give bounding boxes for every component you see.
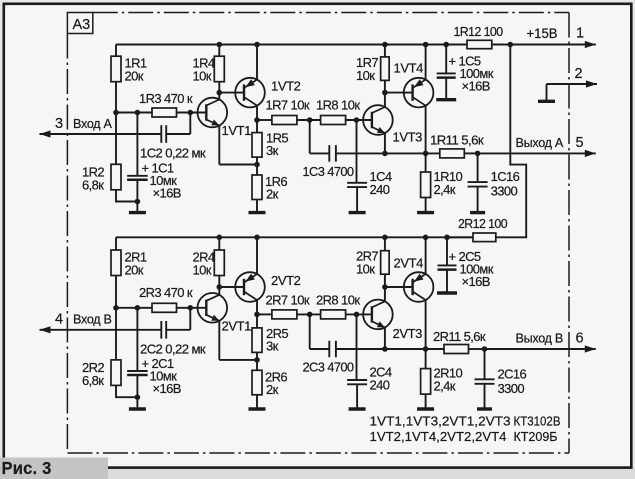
wire 2VT4 collector down: [425, 300, 427, 349]
svg-text:2C3 4700: 2C3 4700: [303, 359, 354, 374]
junction 1VT3 collector/1R7 vert/1VT4 base: [382, 90, 388, 96]
svg-text:×16В: ×16В: [153, 186, 181, 201]
junction rail/2VT4 emitter: [423, 235, 429, 241]
junction output/2C16: [482, 346, 488, 352]
wire output node to 1R10: [425, 153, 427, 172]
wire 2VT3 emitter down: [384, 327, 386, 349]
resistor 1R11: [440, 149, 465, 158]
junction 2R5/2R6/2VT1 emitter: [254, 357, 260, 363]
wire rail to 1R1: [115, 45, 117, 57]
capacitor 2C16: [475, 379, 495, 384]
svg-text:Рис. 3: Рис. 3: [2, 458, 52, 478]
resistor 2R3: [152, 303, 177, 312]
svg-text:3300: 3300: [491, 184, 518, 199]
transistor 1VT2 (PNP): [235, 78, 265, 108]
wire 2C3 branch down: [309, 314, 311, 349]
svg-text:2R7 10к: 2R7 10к: [266, 293, 310, 308]
resistor 2R10: [421, 369, 431, 395]
junction 2R7/2R8/2C3: [307, 312, 313, 318]
wire 1C16 to ground: [477, 187, 479, 213]
wire 1VT2 collector down: [256, 106, 258, 120]
resistor 2R8: [321, 310, 346, 319]
junction 1R8/1VT3 base/1C4: [354, 117, 360, 123]
module designator box A3: [67, 13, 92, 34]
junction rail/2R7 vertical: [382, 235, 388, 241]
wire 1C1 to ground node: [136, 180, 138, 202]
junction 2R8/2VT3 base/2C4: [354, 312, 360, 318]
svg-text:10к: 10к: [193, 69, 212, 84]
wire 2R7 to 2R8: [297, 313, 321, 315]
svg-text:1VT4: 1VT4: [394, 61, 424, 76]
junction 1VT3 emitter/output line: [382, 151, 388, 157]
wire 2VT1 emitter to 2R5/2R6 node: [219, 359, 257, 361]
svg-text:1: 1: [576, 26, 584, 42]
junction rail/1VT4 emitter: [423, 42, 429, 48]
ground 2C4: [349, 407, 366, 410]
arrow input pin 3: [40, 130, 51, 137]
module border bottom (dash-dot): [67, 452, 569, 454]
svg-text:1VT2,1VT4,2VT2,2VT4: 1VT2,1VT4,2VT2,2VT4: [370, 429, 507, 444]
svg-text:КТ3102В: КТ3102В: [514, 414, 561, 429]
transistor 2VT4 (PNP): [404, 272, 434, 302]
wire 1C5 to ground: [445, 78, 447, 100]
svg-text:2C16: 2C16: [498, 367, 527, 382]
wire to 1C3: [310, 152, 330, 154]
svg-text:4: 4: [55, 311, 63, 327]
resistor 2R4: [214, 250, 224, 276]
wire 1R5 to 1R6: [256, 157, 258, 175]
junction +15V pin node / 2R12 feed: [508, 42, 514, 48]
transistor 1VT3 (NPN): [363, 105, 393, 135]
wire rail to 1C5: [445, 45, 447, 74]
junction 1R5/1R6/1VT1 emitter: [254, 162, 260, 168]
transistor 2VT1 (NPN): [198, 293, 228, 323]
wire output line to pin: [485, 348, 596, 350]
junction rail/1C5: [443, 42, 449, 48]
arrow pin 1 (+15V input): [585, 41, 596, 48]
arrow output pin 6: [585, 345, 596, 352]
junction bias node 1C1: [135, 110, 141, 116]
wire 2R12 feed from +15V node: [496, 45, 526, 238]
ground 2C1/2R2: [129, 407, 146, 410]
resistor 1R5: [252, 133, 262, 158]
resistor 1R3: [152, 108, 177, 117]
module border top (dash-dot): [93, 12, 569, 14]
wire 1R2 to ground node: [116, 190, 137, 202]
wire 1R6 to ground: [256, 200, 258, 213]
junction 2VT1 base node: [188, 305, 194, 311]
wire up to 1VT1 base node: [189, 113, 191, 135]
svg-text:Выход В: Выход В: [516, 331, 563, 345]
wire 1VT1 emitter to 1R5/1R6 node: [219, 164, 257, 166]
wire 2R12 to channel B rail: [447, 236, 473, 238]
wire to 2R5: [256, 314, 258, 328]
svg-text:20к: 20к: [125, 263, 144, 278]
transistor 2VT2 (PNP): [235, 272, 265, 302]
wire 1VT2 emitter to rail: [256, 45, 258, 80]
junction 2R2/2C1 ground node: [135, 394, 141, 400]
capacitor 1C2: [161, 125, 166, 143]
wire 2C1 to ground node: [136, 375, 138, 397]
wire output line to pin: [478, 152, 596, 154]
junction 1VT2 collector/1R5/1R7: [254, 117, 260, 123]
wire 1R10 to ground: [425, 198, 427, 213]
wire rail to 2C5: [446, 237, 448, 265]
wire input line: [40, 329, 162, 331]
svg-text:А3: А3: [73, 17, 91, 33]
wire bias node to 2C1: [136, 308, 138, 371]
resistor 2R7 (vertical): [381, 251, 390, 275]
wire 1VT3 collector up: [384, 93, 386, 107]
resistor 2R7 (horizontal): [272, 310, 297, 319]
wire output node to 1C16: [477, 153, 479, 182]
svg-text:2к: 2к: [266, 187, 279, 202]
capacitor 1C3: [329, 145, 336, 162]
svg-text:3: 3: [55, 116, 63, 132]
capacitor 2C1 (electrolytic): [127, 371, 147, 375]
svg-text:2VT2: 2VT2: [271, 273, 301, 288]
svg-text:3300: 3300: [498, 381, 525, 396]
svg-text:2R12 100: 2R12 100: [458, 216, 507, 231]
ground 1R6: [249, 211, 266, 214]
resistor 2R11: [444, 345, 469, 354]
wire to ground: [136, 202, 138, 213]
wire rail to 1R4: [218, 45, 220, 57]
junction rail/1R4: [217, 42, 223, 48]
svg-text:10к: 10к: [356, 262, 375, 277]
wire 2VT1 emitter down: [218, 321, 220, 360]
wire 1C2 to base node: [166, 133, 190, 135]
wire to ground: [136, 397, 138, 409]
wire 2VT2 collector down: [256, 300, 258, 314]
svg-text:1R12 100: 1R12 100: [454, 24, 503, 39]
wire 2R8 to 2VT3 base: [346, 313, 372, 315]
junction 2VT3 emitter/output line: [382, 346, 388, 352]
svg-text:240: 240: [370, 377, 390, 392]
svg-text:2VT3: 2VT3: [393, 326, 423, 341]
svg-text:1VT1: 1VT1: [222, 123, 252, 138]
arrow output pin 5: [585, 150, 596, 157]
junction bias node 2R1/2R2: [113, 305, 119, 311]
wire 2C16 to ground: [484, 384, 486, 409]
junction bias node 2C1: [135, 305, 141, 311]
resistor 1R6: [252, 175, 262, 200]
wire 2R1 to bias node: [115, 276, 117, 308]
svg-text:2к: 2к: [266, 382, 279, 397]
ground 1C1/1R2: [129, 211, 146, 214]
wire rail to 2R4: [218, 237, 220, 250]
capacitor 1C1 (electrolytic): [127, 176, 147, 180]
svg-text:×16В: ×16В: [462, 79, 490, 94]
junction 1VT4 collector/output line: [423, 151, 429, 157]
wire 2C2 to base node: [166, 329, 190, 331]
junction rail/1R7 vertical: [382, 42, 388, 48]
svg-text:6: 6: [576, 330, 584, 346]
svg-text:1R8 10к: 1R8 10к: [316, 98, 360, 113]
svg-text:2,4к: 2,4к: [434, 182, 456, 197]
wire to 1VT2 base: [219, 92, 244, 94]
svg-text:2VT1: 2VT1: [222, 318, 252, 333]
svg-text:10к: 10к: [193, 263, 212, 278]
junction 1VT1 base node: [188, 110, 194, 116]
svg-text:×16В: ×16В: [153, 381, 181, 396]
resistor 1R10: [421, 172, 431, 198]
svg-text:240: 240: [370, 182, 390, 197]
wire 2VT4 emitter to rail: [425, 237, 427, 274]
module border left (dash-dot): [66, 34, 68, 454]
junction rail/2R4: [217, 235, 223, 241]
svg-text:2R3 470 к: 2R3 470 к: [139, 285, 193, 300]
svg-text:2R8 10к: 2R8 10к: [316, 293, 360, 308]
svg-text:1R7 10к: 1R7 10к: [266, 98, 310, 113]
bottom margin strip: [0, 468, 635, 479]
capacitor 2C5 (electrolytic): [438, 265, 457, 269]
junction 1R4/1VT1 collector/1VT2 base: [217, 90, 223, 96]
transistor 2VT3 (NPN): [363, 300, 393, 330]
wire 1C3 branch down: [309, 120, 311, 153]
resistor 1R4: [214, 56, 224, 81]
svg-text:КТ209Б: КТ209Б: [514, 429, 558, 444]
svg-text:1C16: 1C16: [491, 169, 520, 184]
resistor 2R12: [473, 233, 496, 242]
wire output node to 2C16: [484, 349, 486, 379]
resistor 2R1: [111, 250, 121, 276]
svg-text:+15В: +15В: [527, 25, 558, 41]
resistor 1R7 (vertical): [381, 57, 390, 81]
wire 1VT1 emitter down: [218, 126, 220, 165]
wire to 2VT4 base: [385, 286, 413, 288]
junction 2VT4 collector/output line: [423, 346, 429, 352]
capacitor 2C3: [329, 341, 336, 358]
wire bias node to 2R2: [115, 308, 117, 360]
ground 1R10: [417, 211, 434, 214]
ground 1C16: [470, 211, 485, 214]
wire 2VT3 collector up: [384, 287, 386, 301]
svg-text:20к: 20к: [125, 69, 144, 84]
ground 2C5: [437, 291, 457, 294]
svg-text:1VT1,1VT3,2VT1,2VT3: 1VT1,1VT3,2VT1,2VT3: [370, 414, 511, 429]
wire 1C4 column: [356, 120, 358, 183]
wire 1VT1 collector up: [218, 93, 220, 100]
ground 1C4: [349, 211, 366, 214]
resistor 1R1: [111, 56, 121, 81]
arrow input pin 4: [40, 326, 51, 333]
svg-text:1R11 5,6к: 1R11 5,6к: [430, 132, 484, 147]
figure caption background: [0, 458, 108, 479]
wire 2R2 to ground node: [116, 385, 137, 397]
arrow pin 2: [586, 80, 597, 87]
wire 2C3 to 2VT3 emitter node: [336, 348, 385, 350]
junction rail/2C5: [444, 235, 450, 241]
svg-text:1C3 4700: 1C3 4700: [303, 164, 354, 179]
svg-text:2,4к: 2,4к: [434, 379, 456, 394]
wire 1R12 to pin 1 node: [492, 44, 511, 46]
wire to 2VT2 base: [219, 286, 244, 288]
resistor 2R6: [252, 370, 262, 395]
junction 2VT2 collector/2R5/2R7: [254, 312, 260, 318]
svg-text:1VT3: 1VT3: [393, 130, 423, 145]
wire 1VT3 emitter down: [384, 133, 386, 153]
svg-text:3к: 3к: [266, 143, 279, 158]
wire output line left part: [385, 348, 444, 350]
resistor 1R8: [321, 116, 346, 125]
wire input line: [40, 133, 162, 135]
wire to 2R7: [257, 313, 272, 315]
wire 2R5 to 2R6: [256, 352, 258, 370]
svg-text:6,8к: 6,8к: [82, 178, 104, 193]
svg-text:1VT2: 1VT2: [271, 79, 301, 94]
ground pin 2: [538, 100, 555, 103]
wire 1R7 vertical to 1VT4 base node: [384, 80, 386, 92]
resistor 1R2: [111, 164, 121, 190]
wire to 1VT4 base: [385, 92, 413, 94]
wire 1R4 to 1VT1 collector node: [218, 82, 220, 93]
wire +15V rail channel 2: [116, 236, 473, 238]
wire 2R11 to output node: [469, 348, 485, 350]
wire rail to 2R7 vertical: [384, 237, 386, 250]
wire 2R6 to ground: [256, 395, 258, 409]
transistor 1VT1 (NPN): [198, 98, 228, 128]
wire 2R7 vertical to 2VT4 base node: [384, 274, 386, 287]
wire to pin 1: [510, 44, 596, 46]
wire 2VT1 collector up: [218, 287, 220, 295]
junction 1R2/1C1 ground node: [135, 199, 141, 205]
capacitor 2C4: [347, 380, 367, 384]
junction bias node 1R1/1R2: [113, 110, 119, 116]
svg-text:Выход А: Выход А: [516, 136, 564, 150]
wire 2VT2 emitter to rail: [256, 237, 258, 274]
resistor 2R2: [111, 360, 121, 386]
svg-text:Вход В: Вход В: [73, 312, 112, 326]
wire 1R7 to 1R8: [297, 119, 321, 121]
wire 1R11 to output node: [464, 152, 477, 154]
ground 2C16: [477, 407, 492, 410]
wire to 1R5: [256, 120, 258, 133]
wire 2C5 to ground: [446, 270, 448, 293]
wire 1R8 to 1VT3 base: [346, 119, 372, 121]
ground 1C5: [436, 98, 456, 101]
wire 1C3 to 1VT3 emitter node: [336, 152, 385, 154]
wire bias line to 1VT1 base: [116, 112, 206, 114]
svg-text:5: 5: [576, 135, 584, 151]
capacitor 2C2: [161, 321, 166, 339]
svg-text:2R11 5,6к: 2R11 5,6к: [433, 329, 486, 344]
wire 1C4 to ground: [356, 187, 358, 213]
resistor 2R5: [252, 328, 262, 353]
wire +15V rail channel 1: [116, 44, 467, 46]
capacitor 1C5 (electrolytic): [437, 73, 456, 77]
svg-text:Вход А: Вход А: [73, 117, 112, 131]
transistor 1VT4 (PNP): [404, 78, 434, 108]
wire rail to 1R7 vertical: [384, 45, 386, 57]
wire to 2C3: [310, 348, 330, 350]
wire 2C4 column: [356, 314, 358, 380]
junction rail/2VT2 emitter: [254, 235, 260, 241]
svg-text:6,8к: 6,8к: [82, 373, 104, 388]
wire bias line to 2VT1 base: [116, 307, 206, 309]
wire rail to 2R1: [115, 237, 117, 250]
svg-text:1C2 0,22 мк: 1C2 0,22 мк: [140, 146, 206, 161]
wire output line left part: [385, 152, 440, 154]
svg-text:2C2 0,22 мк: 2C2 0,22 мк: [140, 341, 206, 356]
ground 2R6: [249, 407, 266, 410]
junction 2VT3 collector/2R7 vert/2VT4 base: [382, 284, 388, 290]
capacitor 1C4: [347, 183, 367, 187]
svg-text:×16В: ×16В: [462, 274, 490, 289]
capacitor 1C16: [468, 182, 488, 187]
svg-text:2VT4: 2VT4: [394, 256, 424, 271]
wire 1VT4 collector down: [425, 106, 427, 154]
wire bias node to 1C1: [136, 113, 138, 176]
svg-text:10к: 10к: [356, 68, 375, 83]
resistor 1R7 (horizontal): [272, 116, 297, 125]
wire 2C4 to ground: [356, 384, 358, 409]
wire output node to 2R10: [425, 349, 427, 369]
wire pin 2: [547, 83, 598, 85]
junction output/1C16: [475, 151, 481, 157]
resistor 1R12: [467, 40, 492, 48]
ground 2R10: [417, 407, 434, 410]
svg-text:1R3 470 к: 1R3 470 к: [139, 91, 193, 106]
wire 1VT4 emitter to rail: [425, 45, 427, 80]
junction rail/1VT2 emitter: [254, 42, 260, 48]
module border right (dash-dot): [568, 13, 570, 454]
wire 1R1 to bias node: [115, 82, 117, 113]
wire up to 2VT1 base node: [189, 308, 191, 330]
junction 2R4/2VT1 collector/2VT2 base: [217, 284, 223, 290]
junction 1R7/1R8/1C3: [307, 117, 313, 123]
wire bias node to 1R2: [115, 113, 117, 165]
wire 2R10 to ground: [425, 394, 427, 409]
wire pin 2 to ground: [546, 84, 548, 100]
svg-text:3к: 3к: [266, 338, 279, 353]
svg-text:2: 2: [575, 66, 583, 82]
wire to 1R7: [257, 119, 272, 121]
wire 2R4 to 2VT1 collector node: [218, 276, 220, 288]
